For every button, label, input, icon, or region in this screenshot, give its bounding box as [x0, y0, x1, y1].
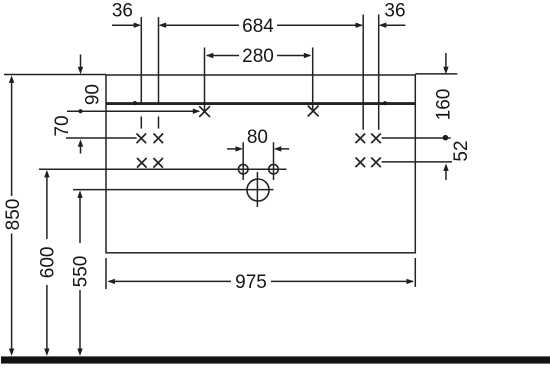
- svg-text:280: 280: [242, 46, 274, 67]
- svg-text:70: 70: [52, 115, 73, 136]
- drain circle vertical crosshair: [256, 172, 258, 207]
- dim 975 extension left: [105, 258, 107, 289]
- rim dot left: [133, 101, 137, 105]
- drain-row line: [73, 189, 274, 191]
- drain circle: [247, 179, 269, 201]
- X marks right cluster row2: [356, 158, 366, 168]
- rim line (thick): [106, 102, 415, 105]
- X marks left cluster row2: [137, 158, 147, 168]
- svg-text:36: 36: [384, 0, 405, 21]
- dim 975 extension right: [414, 258, 416, 287]
- svg-text:52: 52: [451, 140, 472, 161]
- dim 70 lower arrow: [78, 139, 83, 147]
- vanity body outline: [106, 75, 415, 253]
- X mark rim right: [308, 106, 319, 117]
- leader row1 right: [382, 137, 451, 139]
- svg-text:80: 80: [247, 127, 268, 148]
- X mark rim left: [199, 106, 210, 117]
- dim 280 line + arrows: [206, 53, 214, 58]
- svg-text:36: 36: [112, 0, 133, 21]
- dim 160 upper arrow: [445, 53, 447, 68]
- dim 975 line + arrows: [107, 279, 115, 284]
- svg-text:90: 90: [82, 84, 103, 105]
- svg-text:975: 975: [235, 272, 267, 293]
- dim 80 extension verticals: [242, 142, 244, 180]
- leader row2 right: [382, 161, 453, 163]
- extension vertical 36L-b: [158, 17, 160, 105]
- svg-text:684: 684: [242, 16, 274, 37]
- faucet-row line: [39, 168, 287, 170]
- dim 36 right: arrow + line: [379, 23, 387, 28]
- X marks right cluster row1: [356, 134, 366, 144]
- dim 90 upper arrow: [80, 55, 82, 68]
- X marks left cluster row1: [137, 134, 147, 144]
- dim 550 vertical line + arrows: [77, 190, 82, 198]
- dim 52 lower arrow: [443, 163, 448, 171]
- faucet hole circle right: [269, 164, 279, 174]
- svg-text:550: 550: [70, 256, 91, 288]
- extension vertical 36R-a: [362, 15, 364, 130]
- extension vertical 36L-a: [140, 17, 142, 105]
- faucet hole circle left: [238, 164, 248, 174]
- dim dot 160/52: [443, 135, 449, 141]
- dim 600 vertical line + arrows: [44, 170, 49, 178]
- rim dot right: [383, 101, 387, 105]
- top extension line right: [415, 73, 457, 75]
- dim 850 vertical line + arrows: [9, 75, 14, 83]
- floor line: [1, 356, 550, 363]
- svg-text:160: 160: [433, 89, 454, 121]
- top extension line left: [4, 74, 106, 76]
- extension vertical 36R-b: [378, 15, 380, 130]
- under-rim leader line with arrow to rim X: [67, 110, 194, 112]
- svg-text:600: 600: [38, 247, 59, 279]
- dim 684: left arrow + line segments: [159, 23, 167, 28]
- svg-text:850: 850: [3, 199, 24, 231]
- leader row1 left: [66, 137, 137, 139]
- dim 80 lines + arrows: [227, 148, 237, 150]
- dim 280 extension verticals: [204, 48, 206, 112]
- dim 36 left: line + arrow: [112, 24, 134, 26]
- dim dot 90/70: [78, 109, 82, 113]
